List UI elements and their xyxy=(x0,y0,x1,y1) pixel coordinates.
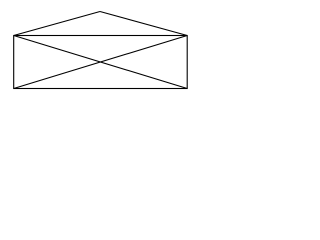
flap left edge xyxy=(14,12,100,36)
flap right edge xyxy=(100,12,187,36)
envelope body rectangle xyxy=(14,36,188,89)
diagonal wire bottom-left to top-right xyxy=(14,36,188,89)
diagonal wire top-left to bottom-right xyxy=(14,36,188,89)
